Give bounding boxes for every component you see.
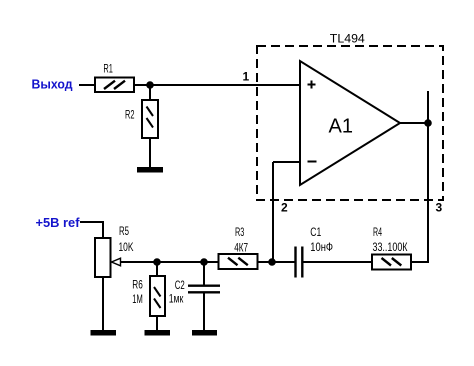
wire +5В ref to R5 top xyxy=(80,222,103,238)
junction node pin2/R3/C1 xyxy=(268,258,276,266)
resistor R1 xyxy=(95,78,134,93)
svg-text:TL494: TL494 xyxy=(330,32,365,46)
wire node to R3 xyxy=(258,261,273,263)
svg-text:C2: C2 xyxy=(175,278,185,292)
svg-text:10K: 10K xyxy=(119,240,134,254)
svg-text:10нФ: 10нФ xyxy=(310,240,333,254)
wire C2 top xyxy=(203,262,205,285)
capacitor C1 xyxy=(296,247,303,278)
svg-text:4К7: 4К7 xyxy=(234,241,248,255)
junction node C2 xyxy=(200,258,208,266)
wire pin 2 vertical down to node xyxy=(272,162,274,262)
wire R1 to op-amp noninverting input (pin 1) xyxy=(134,84,300,86)
svg-text:R3: R3 xyxy=(235,225,244,239)
wire C1 to node 2 xyxy=(272,261,295,263)
svg-text:R5: R5 xyxy=(119,224,129,238)
wire R6 top xyxy=(156,262,158,276)
ground (C2) xyxy=(192,330,217,336)
wire R6 bottom to ground xyxy=(156,316,158,330)
wire inverting input (pin 2) horizontal xyxy=(273,161,300,163)
ground (R6) xyxy=(145,330,171,336)
svg-text:R4: R4 xyxy=(373,225,382,239)
svg-text:1мк: 1мк xyxy=(169,292,184,306)
potentiometer R5 xyxy=(95,238,121,277)
svg-text:1: 1 xyxy=(243,70,250,84)
wire R2 to ground xyxy=(149,138,151,167)
resistor R2 xyxy=(142,100,158,138)
svg-text:Выход: Выход xyxy=(32,77,74,92)
junction node R6 xyxy=(153,258,161,266)
op-amp A1 xyxy=(300,61,400,185)
wire R5 bottom to ground xyxy=(102,277,104,330)
svg-text:R2: R2 xyxy=(125,108,135,122)
wire output down to pin 3 and feedback row xyxy=(411,123,428,262)
svg-text:1M: 1M xyxy=(132,292,143,306)
wire op-amp output xyxy=(399,122,428,124)
ground (R5) xyxy=(91,330,117,336)
resistor R6 xyxy=(150,276,165,316)
ground (R2) xyxy=(137,167,163,173)
svg-text:R1: R1 xyxy=(103,62,113,76)
wire Выход lead xyxy=(79,84,95,86)
IC TL494 boundary (dashed box) xyxy=(257,46,443,200)
junction output node xyxy=(424,119,432,127)
wire R4 to C1 xyxy=(303,261,372,263)
resistor R4 xyxy=(372,255,411,270)
wire output stub up xyxy=(427,91,429,123)
capacitor C2 xyxy=(188,286,220,293)
svg-text:+5В ref: +5В ref xyxy=(36,215,81,230)
resistor R3 xyxy=(219,254,258,269)
svg-text:C1: C1 xyxy=(310,225,321,239)
svg-text:3: 3 xyxy=(436,201,443,215)
wire C2 bottom to ground xyxy=(203,293,205,330)
wire R3 to wiper row xyxy=(121,261,219,263)
svg-text:2: 2 xyxy=(281,201,288,215)
svg-text:A1: A1 xyxy=(329,116,353,138)
wire junction to R2 xyxy=(149,85,151,100)
svg-text:33..100К: 33..100К xyxy=(373,240,408,254)
svg-text:R6: R6 xyxy=(132,278,143,292)
junction R1/R2 node xyxy=(146,81,154,89)
